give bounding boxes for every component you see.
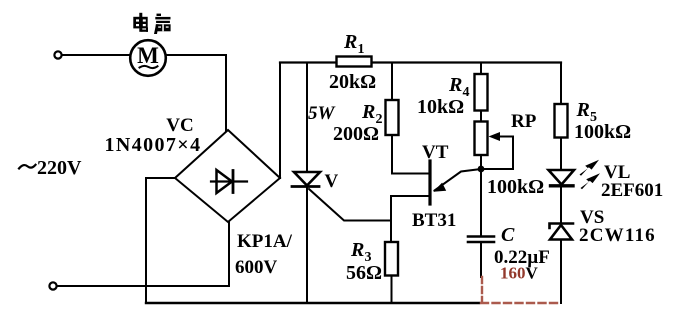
label 电扇 (fan) drawn as filled glyph shapes [133,13,170,34]
bottom rail [146,302,479,304]
svg-text:1N4007×4: 1N4007×4 [104,134,201,156]
bridge internal diode [211,170,247,193]
svg-text:600V: 600V [235,257,278,278]
svg-text:100kΩ: 100kΩ [574,121,631,143]
resistor R1 [337,57,372,67]
svg-text:R: R [343,31,357,53]
wire R4 branch top [480,63,482,75]
svg-text:220V: 220V [37,157,82,179]
wire R5 to LED [560,138,562,171]
wire thyristor branch upper [306,63,308,173]
svg-text:5W: 5W [308,103,336,124]
bridge rectifier VC diamond [175,130,280,222]
wire R2 top [391,63,393,101]
svg-text:100kΩ: 100kΩ [487,176,544,198]
node junction dot [478,166,485,173]
resistor R4 [475,74,488,111]
motor M 电扇 [130,40,166,76]
svg-text:56Ω: 56Ω [346,262,382,284]
svg-text:R: R [350,239,364,261]
svg-text:BT31: BT31 [412,210,456,231]
svg-text:V: V [325,171,339,192]
wire terminal to motor [62,54,130,56]
svg-text:2CW116: 2CW116 [579,225,656,246]
LED VL [549,170,575,186]
red dashed wire vertical [481,277,483,302]
svg-text:KP1A/: KP1A/ [237,231,293,252]
svg-text:R: R [576,99,590,121]
svg-text:VT: VT [422,142,449,163]
svg-text:VC: VC [166,115,193,136]
wire R3 bottom [391,276,393,304]
capacitor C [468,237,494,243]
wire up to bridge bottom vertex [228,222,230,286]
RP wiper arrow [484,132,513,169]
wire bridge right vertex up to rail [279,63,281,179]
wire motor to top corner [166,54,227,56]
svg-text:1: 1 [358,42,365,57]
svg-text:M: M [137,43,159,68]
svg-text:R: R [361,101,375,123]
terminal upper AC input [54,51,61,58]
wire lower terminal to bridge bottom [57,285,229,287]
wire down to bridge top [225,55,227,131]
wire left vertical down [145,178,147,303]
UJT B1 wire [391,196,429,242]
svg-text:20kΩ: 20kΩ [329,71,376,93]
transistor VT (UJT) bar [428,161,431,204]
wire zener to bottom rail [560,240,562,304]
svg-text:C: C [501,224,515,246]
svg-text:RP: RP [511,111,537,132]
LED emission arrows [580,160,601,190]
resistor R5 [555,104,568,138]
svg-text:160V: 160V [500,264,539,283]
wire LED to zener [560,186,562,224]
wire thyristor cathode down to bottom rail [306,187,308,304]
resistor R3 [385,242,398,276]
terminal lower AC input [49,282,56,289]
svg-text:2EF601: 2EF601 [601,180,663,201]
thyristor V [292,172,320,187]
thyristor gate wire [309,189,391,221]
zener VS [550,224,574,240]
label ~220V [19,165,36,169]
top rail [280,61,561,63]
svg-text:10kΩ: 10kΩ [417,96,464,118]
potentiometer RP [475,122,488,156]
UJT emitter wire with arrow [433,169,481,192]
svg-text:R: R [448,74,462,96]
wire RP bottom to node [480,155,482,236]
resistor R2 [386,100,399,135]
wire R4 to RP [480,111,482,122]
wire R2 bottom to UJT B2 [392,135,429,174]
svg-text:200Ω: 200Ω [333,123,379,145]
wire cap bottom [480,242,482,277]
wire bridge left vertex to left rail [146,177,175,179]
wire right branch top [560,63,562,105]
red dashed wire horizontal [481,302,560,304]
